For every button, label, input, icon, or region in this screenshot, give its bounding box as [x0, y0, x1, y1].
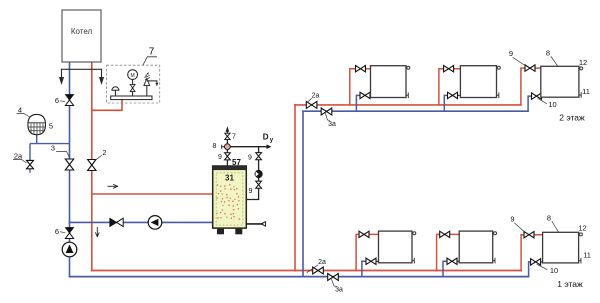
plug 1F rad3 — [579, 258, 581, 263]
svg-text:11: 11 — [583, 251, 591, 260]
valve 2a 2F — [306, 101, 317, 108]
plug 2F rad2 — [497, 93, 499, 98]
safety group dashed enclosure — [106, 65, 159, 103]
svg-text:Котел: Котел — [71, 27, 93, 36]
svg-text:9: 9 — [218, 154, 222, 161]
vent arrow up — [226, 126, 230, 132]
cold water stub with arrow — [246, 222, 265, 226]
air vent 2F rad1 — [406, 66, 410, 69]
wire: 1F rad2 red riser — [437, 234, 460, 270]
SECTION: expansion vessel — [13, 106, 70, 173]
svg-text:7: 7 — [232, 134, 236, 141]
wire: 2F red supply main — [295, 104, 521, 106]
svg-text:9: 9 — [509, 49, 513, 58]
valve 2F rad1 return — [360, 92, 370, 98]
SECTION: boiler and left column — [51, 10, 213, 277]
label 11 2F — [582, 87, 590, 96]
valve 1F rad1 supply — [359, 231, 369, 237]
svg-text:2 этаж: 2 этаж — [559, 113, 585, 123]
label 3 with leader — [51, 144, 70, 158]
radiator 2F rad2 — [460, 66, 496, 98]
label 3a 2F — [326, 114, 336, 129]
label 3a 1F — [332, 279, 343, 294]
SECTION: first floor — [307, 214, 591, 294]
air vent 1F rad1 — [412, 232, 416, 235]
valve 3a 2F — [321, 108, 332, 115]
wire: blue riser from 2nd floor — [302, 111, 304, 276]
svg-text:9: 9 — [510, 215, 514, 224]
wire: DHW line to consumers — [230, 144, 271, 149]
wire: 2F rad2 red riser — [439, 69, 461, 105]
radiator 1F rad1 — [379, 231, 413, 263]
manifold bar — [111, 96, 152, 100]
valve 1F rad2 return — [447, 258, 457, 264]
wire: 2F rad1 return stub — [365, 94, 371, 96]
tank feet — [217, 229, 242, 235]
valve 2 (red drop) — [88, 160, 96, 171]
wire: red riser to 2nd floor — [294, 105, 296, 271]
wire: 1F rad2 return stub — [452, 260, 459, 262]
plug 2F rad3 — [579, 93, 581, 98]
check valve 6 lower (above pump) — [65, 228, 73, 239]
label 9 tank top — [218, 154, 222, 161]
wire: 1F rad3 red riser — [521, 235, 543, 271]
valve 1F rad3 supply — [524, 232, 534, 238]
valve 2F rad1 supply — [356, 66, 366, 72]
wire: 2F rad3 blue drop — [528, 96, 536, 111]
air vent 2F rad2 — [497, 66, 501, 69]
flow arrow right — [108, 185, 118, 189]
svg-text:6: 6 — [55, 227, 59, 236]
label 9 1F — [510, 215, 523, 232]
flow arrow down — [96, 228, 100, 237]
svg-text:31: 31 — [225, 174, 234, 183]
label 2 этаж — [559, 113, 585, 123]
label 2a 2F — [307, 93, 320, 104]
wire: blue return main ground level — [70, 276, 529, 278]
label 9 recirc lower — [249, 188, 253, 195]
label 6 lower — [55, 227, 65, 236]
label 8 2F — [546, 49, 558, 66]
svg-text:9: 9 — [249, 188, 253, 195]
air vent dome — [112, 87, 119, 96]
valve 2F rad3 supply — [525, 65, 535, 71]
label 1 этаж — [557, 279, 583, 289]
label 11 1F — [583, 251, 591, 260]
wire: red supply drop from boiler to bottom main — [91, 62, 93, 271]
wire: 2F blue return main — [303, 110, 528, 112]
valve 1F rad2 supply — [440, 231, 450, 237]
radiator 1F rad2 — [459, 231, 493, 263]
svg-text:3а: 3а — [335, 287, 343, 294]
radiator 2F rad3 — [541, 66, 579, 97]
svg-text:12: 12 — [578, 224, 586, 233]
valve 2F rad3 return — [532, 93, 542, 99]
wire: 2F rad3 red riser — [521, 68, 541, 105]
svg-text:8: 8 — [547, 214, 551, 223]
wire: tank primary supply (red) — [92, 193, 213, 195]
wire: 2F rad2 blue drop — [444, 95, 452, 111]
label 7 tank top — [232, 134, 236, 141]
check valve 6 upper (blue riser) — [65, 95, 73, 106]
tank speckles — [216, 184, 240, 220]
SECTION: indirect water heater tank — [213, 126, 274, 234]
label 12 1F — [578, 224, 586, 233]
svg-text:5: 5 — [49, 122, 53, 131]
label 5 — [49, 122, 53, 131]
wire: 2F rad1 blue drop — [356, 95, 365, 111]
valve 9 recirc lower — [256, 181, 262, 188]
wire: vessel connection with drain branch — [30, 135, 70, 173]
label 2a left with leader — [13, 152, 27, 164]
radiator 2F rad1 — [371, 66, 407, 98]
svg-text:2а: 2а — [312, 93, 320, 100]
svg-text:2: 2 — [102, 148, 106, 157]
wire: 2F rad3 return stub — [537, 95, 541, 97]
wire: 1F rad1 return stub — [371, 260, 379, 262]
label 6 upper — [55, 96, 65, 105]
label 8 1F — [547, 214, 559, 233]
SECTION: bottom mains — [70, 105, 529, 277]
svg-text:10: 10 — [548, 100, 556, 109]
wire: 1F rad2 blue drop — [443, 261, 452, 276]
label 8 tank top — [213, 143, 217, 150]
pump P2 tank circuit — [148, 216, 162, 230]
svg-text:9: 9 — [248, 155, 252, 162]
svg-text:3: 3 — [51, 144, 55, 153]
svg-text:3а: 3а — [328, 121, 336, 128]
boiler Котел — [62, 10, 101, 62]
valve 9 tank top — [225, 153, 231, 160]
label 2a 1F — [307, 259, 326, 273]
label 57 — [232, 158, 241, 167]
air vent 1F rad2 — [493, 232, 497, 235]
wire: 1F rad3 blue drop — [529, 262, 536, 277]
wire: DHW column from tank top — [226, 132, 228, 167]
svg-text:12: 12 — [579, 58, 587, 67]
recirculation pump — [255, 170, 262, 177]
label 10 2F — [538, 99, 557, 110]
safety valve 7 tank top — [225, 133, 230, 139]
valve 2F rad2 return — [448, 92, 458, 98]
svg-text:8: 8 — [546, 49, 550, 58]
svg-text:8: 8 — [213, 143, 217, 150]
label Dy — [263, 133, 274, 144]
safety valve with discharge — [144, 72, 158, 96]
wire: 1F rad3 return stub — [536, 261, 543, 263]
svg-text:6: 6 — [55, 96, 59, 105]
svg-text:10: 10 — [550, 266, 558, 275]
label 9 2F — [509, 49, 524, 65]
svg-text:7: 7 — [149, 47, 155, 58]
pump P1 boiler return — [62, 242, 77, 257]
plug 1F rad2 — [493, 258, 495, 263]
wire: 2F rad1 red riser — [350, 69, 371, 105]
svg-text:57: 57 — [232, 158, 241, 167]
wire: tank primary return (blue) — [70, 221, 213, 223]
label 12 2F — [579, 58, 587, 67]
bracket with down arrows under boiler — [60, 69, 104, 83]
svg-text:1 этаж: 1 этаж — [557, 279, 583, 289]
valve 3 (blue riser) — [65, 159, 73, 170]
label 7 with leader — [143, 47, 157, 66]
air vent 2F rad3 — [579, 67, 583, 70]
wire: blue return riser from boiler to bottom main — [69, 62, 71, 277]
water heater tank 31 — [213, 166, 247, 228]
radiator 1F rad3 — [543, 232, 579, 263]
SECTION: safety group — [92, 47, 160, 111]
valve 2a 1F — [313, 267, 324, 274]
wire: red feed to safety manifold — [92, 99, 122, 110]
svg-text:D: D — [263, 133, 269, 142]
label 10 1F — [537, 265, 558, 276]
valve 3a 1F — [328, 274, 339, 281]
plug 2F rad1 — [406, 93, 408, 98]
wire: recirculation column — [246, 147, 258, 200]
air vent 1F rad3 — [579, 233, 583, 236]
svg-text:M: M — [131, 73, 135, 79]
wire: 1F rad1 blue drop — [362, 261, 371, 276]
wire: 1F rad1 red riser — [356, 234, 378, 270]
plug 1F rad1 — [412, 258, 414, 263]
wire: red supply main ground level — [92, 270, 521, 272]
svg-text:11: 11 — [582, 87, 590, 96]
drain valve 2a left — [27, 160, 34, 168]
label 4 with leader — [17, 106, 30, 118]
valve 1F rad3 return — [531, 259, 541, 265]
expansion tank 4/5 — [28, 114, 46, 134]
valve 1F rad1 return — [366, 258, 376, 264]
label 2 with leader — [94, 148, 106, 161]
mixing valve 8 circle — [222, 144, 231, 150]
valve 2F rad2 supply — [444, 66, 454, 72]
check valve (tank return) — [110, 218, 123, 226]
svg-text:2а: 2а — [318, 259, 326, 266]
valve 9 recirc upper — [256, 153, 262, 160]
label 9 recirc upper — [248, 155, 252, 162]
pressure gauge M — [128, 70, 138, 96]
wire: 2F rad2 return stub — [453, 94, 461, 96]
SECTION: second floor — [295, 49, 590, 129]
